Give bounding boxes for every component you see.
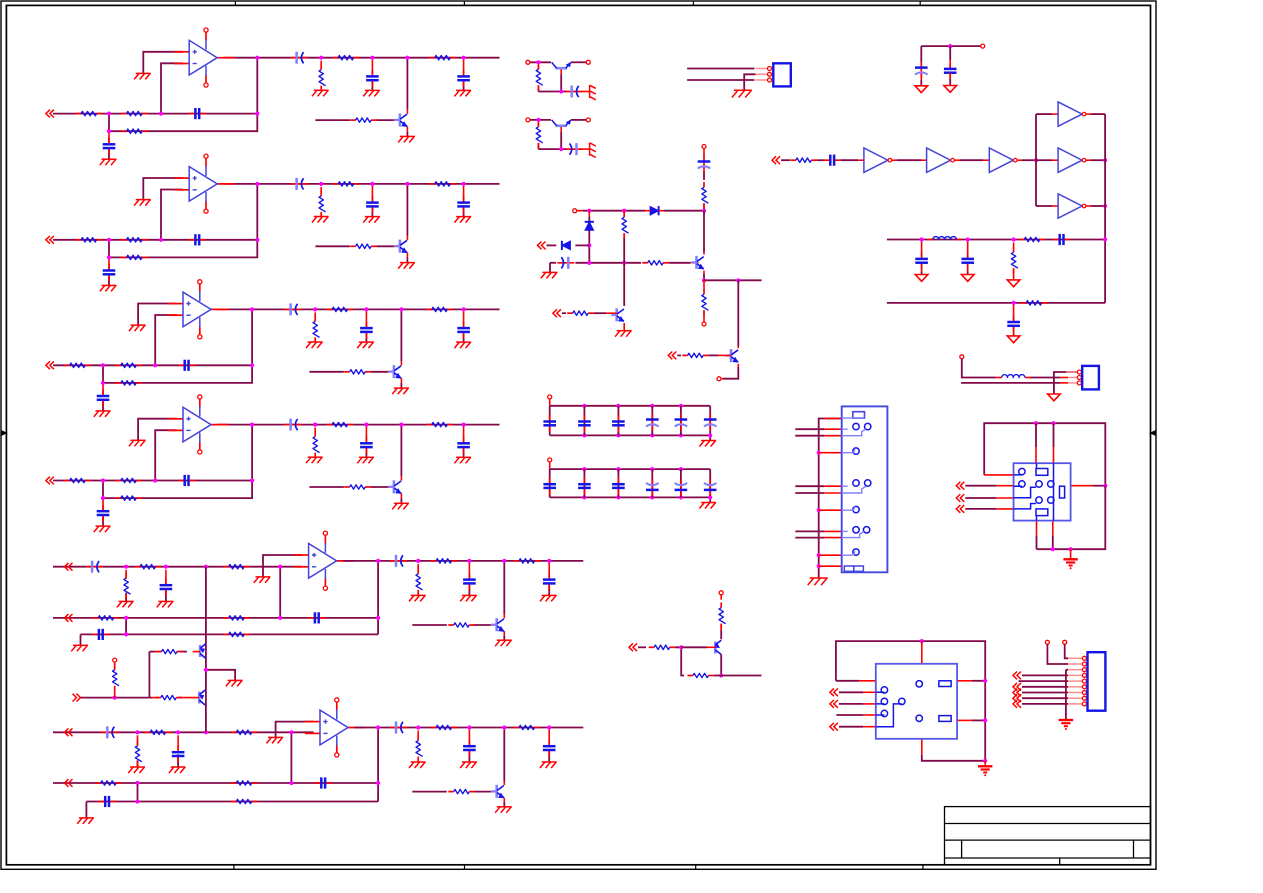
junction [650,404,654,408]
resistor R23 [121,255,147,259]
power symbol [944,86,957,93]
wire [550,434,711,436]
resistor R61 [135,741,142,767]
wire [290,732,292,783]
wire [371,486,388,488]
transistor Q3 [388,365,401,379]
wire [315,308,499,310]
capacitor C25 [457,196,470,213]
resistor R75 [719,603,726,629]
wire [819,452,842,454]
wire [550,496,711,498]
capacitor C21 (feedback) [189,234,206,245]
input port [772,156,780,164]
junction [948,44,952,48]
capacitor C (bank) [543,415,556,432]
resistor R85 [682,353,708,357]
wire [703,252,705,255]
wire [824,492,842,494]
wire [538,91,566,93]
junction [1069,547,1073,551]
wire [377,119,394,121]
wire [109,58,257,132]
ground [615,331,632,337]
wire [921,739,923,755]
junction [462,182,466,186]
wire [581,148,590,150]
resistor R44 [313,431,320,457]
junction [399,307,403,311]
wire [839,703,863,705]
connector pin [768,78,772,82]
wire [108,114,110,132]
wire [503,631,505,635]
junction [416,725,420,729]
wire [400,493,402,498]
transistor Q5 [491,618,504,632]
input port [65,563,73,571]
wire [984,474,1013,476]
wire [1035,423,1037,447]
resistor R83 [702,289,709,315]
wire [53,731,314,733]
wire [279,567,281,618]
wire [555,244,557,246]
junction [679,433,683,437]
capacitor C55 [543,573,556,590]
wire [550,405,711,407]
junction [1051,547,1055,551]
input port [65,728,73,736]
wire [137,783,139,802]
ground [128,767,145,773]
wire [53,239,257,241]
wire [371,371,388,373]
wire [1013,334,1015,336]
wire [560,132,562,149]
junction [250,307,254,311]
wire [548,752,550,763]
capacitor C92 [1007,315,1020,332]
wire [680,406,682,436]
wire [548,563,550,578]
wire [503,728,505,782]
wire [588,211,590,217]
ground [495,640,512,646]
wire [972,719,985,721]
wire [365,311,367,326]
power symbol [961,275,974,282]
wire [718,354,731,356]
junction [983,759,987,763]
wire [690,262,699,264]
resistor R53 [223,565,249,569]
wire [1019,680,1069,682]
junction [1103,484,1107,488]
wire [80,634,82,645]
ground [266,737,283,743]
resistor R56 [223,632,249,636]
pin [548,458,552,462]
resistor R84 [567,311,593,315]
wire [155,651,162,653]
capacitor C35 [457,322,470,339]
capacitor C (bank, polarized) [704,413,717,430]
wire [714,675,762,677]
wire [1066,669,1068,671]
junction [255,112,259,116]
capacitor C (filter) [961,252,974,269]
junction [159,238,163,242]
wire [538,148,566,150]
junction [920,237,924,241]
capacitor C54 [463,573,476,590]
pin [717,377,721,381]
wire [276,722,314,738]
connector pin [768,67,772,71]
junction [679,467,683,471]
ground [540,595,557,601]
resistor R52 [135,565,161,569]
transistor Q6 [491,785,504,799]
audio jack J3 [1014,463,1071,520]
power symbol [915,275,928,282]
wire [103,425,252,499]
resistor R26 (base) [350,244,376,248]
junction [364,423,368,427]
wire [549,263,551,273]
pin [526,60,530,64]
wire [965,508,996,510]
wire [474,624,491,626]
pin [586,118,590,122]
wire [463,60,465,75]
wire [677,354,681,356]
wire [839,691,863,693]
capacitor C44 [360,437,373,454]
capacitor C (bank) [578,415,591,432]
resistor R42 [115,478,141,482]
border tick top [463,1,465,5]
wire [388,371,394,373]
wire [675,647,684,675]
wire [463,186,465,201]
wire [651,469,653,497]
ground [129,440,146,446]
junction [679,404,683,408]
ground [409,595,426,601]
junction [107,238,111,242]
junction [1103,158,1107,162]
connector pin [1082,679,1086,683]
junction [547,559,551,563]
wire [463,311,465,326]
resistor R12 [121,111,147,115]
junction [124,616,128,620]
capacitor C53 (output) [390,555,407,567]
wire [161,63,183,113]
input port [629,643,637,651]
wire [400,425,402,477]
wire [161,190,183,240]
wire [206,670,235,681]
wire [565,148,567,150]
junction [582,433,586,437]
wire [863,714,876,716]
wire [623,211,625,214]
wire [897,159,921,161]
input port [668,352,676,360]
resistor R [536,64,543,90]
wire [355,727,584,729]
pin [526,118,530,122]
connector pin [1082,656,1086,660]
wire [720,595,722,600]
junction [1034,158,1038,162]
junction [547,725,551,729]
junction [462,56,466,60]
resistor R13 [121,129,147,133]
resistor R90 [790,158,816,162]
resistor R65 [231,781,257,785]
wire [920,74,922,81]
wire [263,555,302,577]
wire [720,624,722,630]
junction [101,363,105,367]
wire [371,186,373,201]
transistor Q4 [388,480,401,494]
wire [1030,377,1060,379]
wire [320,61,322,66]
wire [1060,382,1068,384]
inductor L95 [996,375,1030,378]
junction [650,495,654,499]
resistor R45 [327,422,353,426]
ground (rotated) [590,85,596,100]
wire [406,184,408,236]
border center mark left [1,431,6,435]
wire [645,210,650,212]
wire [703,171,705,180]
wire [463,449,465,458]
wire [406,131,408,136]
wire [474,791,491,793]
junction [124,565,128,569]
wire [606,312,617,314]
wire [137,760,139,767]
wire [412,624,447,626]
junction [416,559,420,563]
wire [138,419,176,441]
connector pin [1077,370,1081,374]
ground [732,90,752,97]
capacitor C64 [99,796,116,807]
border tick bottom [233,865,235,870]
wire [721,378,723,380]
junction [622,209,626,213]
connector pin [1077,376,1081,380]
wire [468,585,470,596]
wire [81,697,153,699]
resistor R31 [64,363,90,367]
wire [550,468,711,470]
wire [102,383,104,395]
resistor R93 [1021,301,1047,305]
wire [795,485,824,487]
op-amp U1 [174,28,235,87]
input port [830,700,838,708]
wire [921,242,923,258]
ground [363,90,380,96]
wire [681,646,707,648]
wire [1022,692,1068,694]
junction [107,255,111,259]
wire [1093,485,1105,487]
wire [1052,521,1054,536]
wire [548,730,550,745]
wire [984,423,1105,486]
ground [100,285,117,291]
wire [623,238,625,263]
wire [965,485,996,487]
wire [102,517,104,527]
wire [1036,521,1038,536]
ground [134,73,151,79]
resistor R67 [514,725,541,729]
wire [177,735,179,749]
wire [102,481,104,499]
wire [1060,377,1068,379]
junction [679,645,683,649]
capacitor C91 [1053,234,1070,245]
wire [1036,205,1052,207]
wire [371,60,373,75]
wire [957,719,972,721]
junction [107,112,111,116]
junction [255,182,259,186]
wire [720,655,722,676]
junction [616,433,620,437]
wire [836,714,863,716]
resistor R32 [115,363,141,367]
resistor R33 [115,381,141,385]
wire [1036,536,1038,550]
wire [114,662,116,670]
capacitor C54 [92,629,109,640]
junction [708,495,712,499]
junction [702,209,706,213]
junction [376,781,380,785]
wire [920,46,922,62]
wire [623,233,625,238]
ground [392,388,409,394]
wire [967,272,969,275]
resistor R24 [319,191,326,217]
wire [165,589,167,602]
transistor Q5A (mirror) [200,644,206,659]
input port [830,688,838,696]
wire [1091,205,1105,207]
wire [388,486,394,488]
wire [707,646,715,648]
wire [795,492,824,494]
input port [538,242,546,250]
wire [565,91,567,93]
wire [503,614,505,618]
junction [536,60,540,64]
junction [1034,421,1038,425]
ground [540,762,557,768]
wire [503,798,505,802]
wire [102,401,104,411]
input port row 2 [46,236,54,244]
wire [984,761,986,767]
wire [177,754,179,767]
capacitor C65 [543,740,556,757]
wire [1065,644,1068,658]
power symbol [1048,394,1061,401]
wire [795,428,824,430]
wire [1022,159,1036,161]
capacitor C (bank) [612,478,625,495]
wire [703,271,705,274]
junction [1012,301,1016,305]
junction [364,307,368,311]
wire [709,469,711,497]
wire [103,309,252,383]
wire [177,651,180,653]
wire [155,315,176,365]
op-amp U4 [168,395,229,454]
wire [377,245,394,247]
input port [1013,694,1021,702]
wire [1052,536,1054,550]
input port [830,723,838,731]
wire [824,537,842,539]
resistor R92 [1019,237,1045,241]
wire [1054,372,1078,394]
ground [454,90,471,96]
wire [824,435,842,437]
junction [616,495,620,499]
wire [548,585,550,596]
buffer U9x [1058,194,1086,218]
wire [224,183,322,185]
power symbol [915,86,928,93]
audio jack J4 [876,664,957,739]
border center mark right [1151,431,1157,435]
resistor R55 [431,559,457,563]
buffer U9x [1058,102,1086,126]
wire [824,428,842,430]
junction [204,668,208,672]
wire [468,752,470,763]
wire [996,508,1013,510]
wire [1036,113,1052,115]
capacitor C (bank, polarized) [675,479,688,496]
wire [709,354,718,356]
wire [400,477,402,481]
wire [824,418,842,420]
resistor R77 [688,673,714,677]
wire [537,143,539,146]
wire [1013,305,1015,320]
ground [409,762,426,768]
border tick bottom [695,865,697,870]
connector pin [1082,691,1086,695]
wire [365,427,367,442]
resistor R15 [333,56,359,60]
